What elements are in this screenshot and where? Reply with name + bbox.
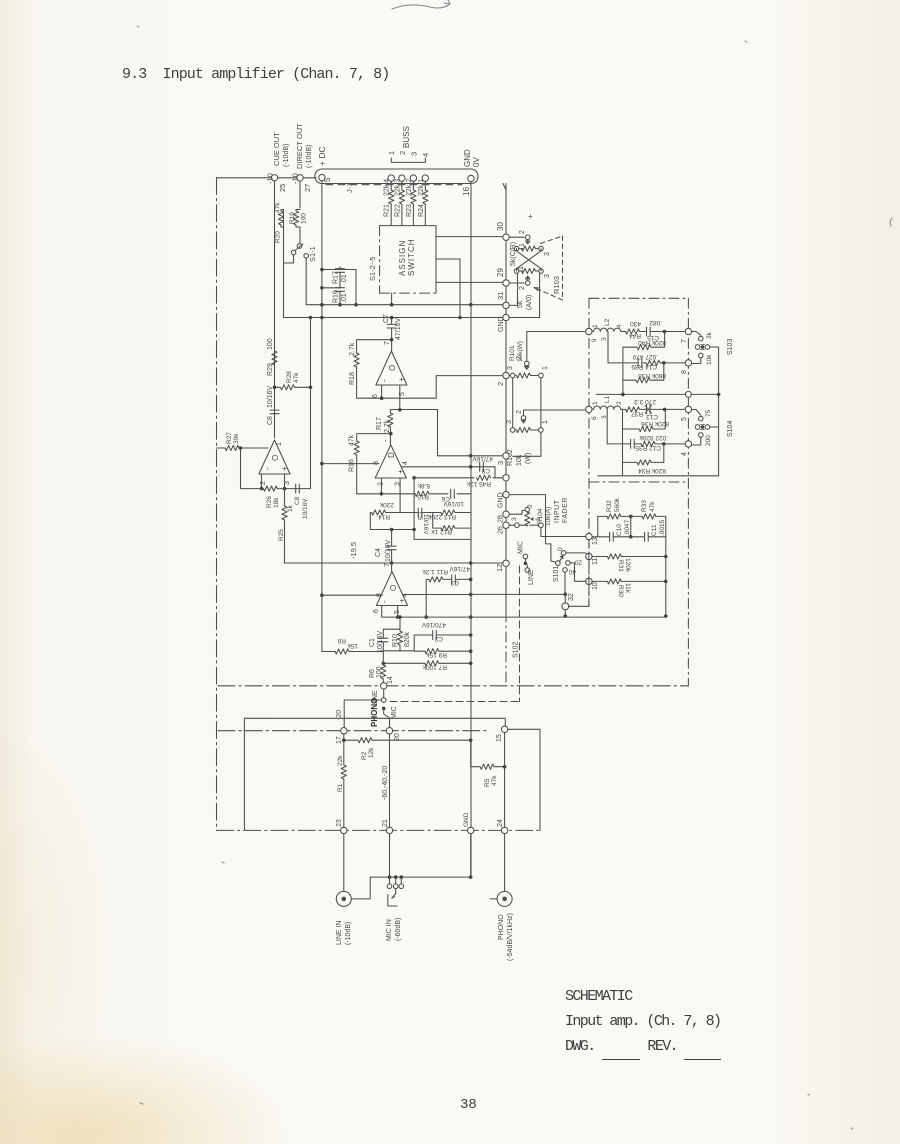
svg-text:R12 1k: R12 1k — [431, 528, 452, 535]
switch S1-1 — [291, 250, 296, 255]
resistor R29 100 — [272, 351, 277, 365]
svg-text:47/16V: 47/16V — [472, 455, 493, 462]
svg-text:860k R38: 860k R38 — [638, 372, 666, 379]
svg-text:LINE IN: LINE IN — [336, 920, 343, 945]
capacitor C14 .027 + resistor R39 470 — [608, 362, 685, 364]
svg-text:C13: C13 — [646, 413, 658, 420]
svg-text:R25: R25 — [278, 529, 285, 541]
svg-text:-: - — [380, 600, 389, 603]
svg-text:C11: C11 — [651, 524, 658, 536]
wire mic contact to pin20 — [384, 711, 390, 727]
resistor R7 100k — [383, 662, 470, 664]
resistor R45 12k — [477, 475, 491, 480]
svg-text:20: 20 — [574, 559, 582, 566]
wire x=414 vertical + bottom jog — [414, 478, 471, 540]
wire line contact to pin17 — [344, 700, 381, 727]
svg-text:3: 3 — [511, 517, 518, 521]
wire S103/S104 right vertical — [718, 347, 720, 476]
svg-text:25: 25 — [278, 184, 287, 192]
connector PHONO — [490, 834, 514, 961]
svg-text:11: 11 — [592, 558, 599, 565]
resistor R6 100 — [382, 651, 384, 683]
svg-text:C9: C9 — [481, 467, 490, 474]
svg-text:R37: R37 — [631, 410, 643, 417]
svg-text:R5: R5 — [484, 778, 491, 787]
svg-text:10/16V: 10/16V — [385, 539, 392, 562]
svg-text:INPUT: INPUT — [554, 499, 561, 523]
svg-text:MIC: MIC — [518, 541, 525, 554]
capacitor C8b 10/16V — [296, 484, 300, 493]
svg-text:R27: R27 — [226, 432, 233, 444]
pin 10 — [586, 578, 592, 584]
svg-text:R11 1.2k: R11 1.2k — [422, 568, 448, 575]
wire D pin3 stub down — [399, 478, 401, 513]
svg-text:820k: 820k — [404, 631, 411, 647]
svg-text:5k(C/R): 5k(C/R) — [510, 242, 517, 266]
capacitor C7 47/16V — [391, 318, 393, 352]
svg-text:2: 2 — [496, 382, 505, 386]
capacitor C5 10/16V — [400, 512, 418, 514]
wire pin column dashed — [505, 184, 507, 613]
svg-text:ASSIGN: ASSIGN — [398, 240, 407, 276]
svg-text:D: D — [387, 452, 396, 458]
wire pin28 to fader wiper — [509, 511, 524, 515]
svg-text:C2: C2 — [434, 635, 443, 642]
resistor R44 430 + capacitor C15 .082 — [622, 331, 685, 333]
wire pin30 to wiper — [509, 236, 524, 238]
svg-text:2: 2 — [519, 230, 526, 234]
wire cap bracket right — [355, 270, 357, 305]
svg-text:R6: R6 — [369, 669, 376, 678]
pin 8 — [685, 360, 691, 366]
pin 24 — [501, 827, 507, 833]
svg-text:40: 40 — [568, 568, 576, 575]
pin 17 — [341, 728, 347, 734]
wire C1/R10 bottom row — [383, 650, 414, 652]
svg-text:6: 6 — [591, 416, 598, 420]
resistor R36 820k — [623, 409, 666, 475]
resistor R13 220k — [433, 512, 471, 514]
title — [122, 66, 389, 83]
svg-text:12: 12 — [495, 564, 504, 572]
svg-text:3: 3 — [507, 366, 514, 370]
capacitor C8 10/16V (series) — [274, 430, 276, 438]
svg-text:470/16V: 470/16V — [421, 621, 446, 628]
svg-text:3: 3 — [601, 337, 608, 341]
svg-text:R29: R29 — [267, 363, 274, 376]
svg-text:26: 26 — [498, 526, 505, 534]
svg-text:6.8k: 6.8k — [417, 482, 430, 489]
jack board boundary — [244, 718, 505, 830]
svg-text:R103: R103 — [552, 276, 561, 294]
svg-text:6: 6 — [373, 609, 380, 613]
wire fader out to pin13 row — [541, 528, 586, 537]
svg-text:R21: R21 — [384, 204, 391, 217]
pin 31 — [503, 302, 509, 308]
svg-text:30: 30 — [496, 222, 505, 231]
svg-text:2: 2 — [398, 151, 407, 155]
resistor R32 560k + capacitor C10 .0047 — [592, 497, 632, 541]
connector MIC IN jack — [386, 834, 404, 941]
svg-text:1: 1 — [542, 420, 549, 424]
inductor L2 — [586, 318, 623, 342]
resistor R34 820k — [623, 444, 664, 463]
potentiometer R103b 5k(A/0) pan — [514, 266, 551, 310]
svg-text:LINE: LINE — [528, 569, 535, 585]
svg-text:+: + — [397, 377, 406, 382]
wire pin2 net to feedback — [436, 376, 502, 399]
svg-text:(-10dB): (-10dB) — [306, 145, 313, 168]
wire mid EQ row y=394.4 — [596, 393, 718, 395]
svg-text:.01: .01 — [341, 274, 348, 284]
svg-text:9: 9 — [591, 338, 598, 342]
svg-text:3: 3 — [544, 274, 551, 278]
wire pin29 to wiper — [509, 282, 524, 284]
fader R104 10k(A) INPUT FADER — [511, 497, 569, 527]
buss pin 4 — [422, 175, 428, 181]
svg-text:47k: 47k — [275, 202, 282, 213]
svg-text:16: 16 — [462, 187, 471, 196]
svg-text:10/16V: 10/16V — [443, 500, 464, 507]
svg-text:2.7k: 2.7k — [384, 419, 391, 433]
svg-text:GND: GND — [463, 812, 470, 827]
svg-text:47k: 47k — [293, 372, 300, 383]
pin 29 — [503, 280, 509, 286]
svg-text:270 3.3: 270 3.3 — [634, 398, 656, 405]
svg-text:11k: 11k — [624, 583, 631, 594]
pin 20 — [386, 728, 392, 734]
wire dash-dot row pin 14 level — [218, 685, 688, 687]
pin 4 — [685, 441, 691, 447]
svg-text:2.7k: 2.7k — [349, 342, 356, 356]
wire pin20 down — [389, 734, 391, 827]
svg-text:GND: GND — [498, 492, 505, 508]
svg-text:R23: R23 — [406, 204, 413, 217]
svg-text:17: 17 — [336, 736, 343, 744]
svg-text:R1: R1 — [337, 783, 344, 792]
svg-text:R28: R28 — [286, 371, 293, 383]
svg-text:C5: C5 — [416, 512, 423, 521]
resistor R5 47k — [471, 733, 505, 827]
potentiometer R103a 5k(C/R) pan — [510, 230, 551, 266]
svg-text:-: - — [381, 439, 390, 442]
pin 5 (+DC) — [319, 174, 325, 180]
svg-text:S1-1: S1-1 — [308, 246, 317, 262]
svg-text:BUSS: BUSS — [402, 126, 411, 148]
svg-text:R104: R104 — [537, 508, 544, 524]
svg-text:1: 1 — [387, 151, 396, 155]
svg-text:+: + — [396, 469, 405, 474]
svg-text:7: 7 — [681, 339, 688, 343]
svg-text:FADER: FADER — [562, 497, 569, 523]
svg-text:27: 27 — [303, 184, 312, 192]
svg-text:C3: C3 — [450, 579, 459, 586]
svg-text:2: 2 — [519, 286, 526, 290]
wire connector to pin column — [503, 184, 506, 191]
svg-text:100: 100 — [267, 338, 274, 350]
resistor R33 47k + capacitor C11 .0015 — [631, 500, 666, 542]
svg-text:L2: L2 — [604, 318, 611, 326]
svg-text:47/16V: 47/16V — [449, 565, 470, 572]
svg-text:.027 470: .027 470 — [632, 353, 658, 360]
connector LINE IN — [336, 834, 370, 945]
op-amp U1E — [373, 563, 409, 614]
svg-text:75: 75 — [705, 409, 712, 417]
buss pin 3 — [410, 175, 416, 181]
wire pin column dashed lower — [588, 540, 590, 606]
svg-text:21: 21 — [382, 819, 389, 827]
svg-text:47/16V: 47/16V — [395, 317, 402, 340]
wire EQ bottom row — [598, 475, 719, 477]
svg-text:(A/0): (A/0) — [526, 295, 533, 310]
wire op-amp C pin5 output jog — [390, 385, 399, 410]
svg-text:22k 2: 22k 2 — [406, 179, 413, 196]
svg-text:S103: S103 — [727, 339, 734, 355]
pin GND bottom — [468, 827, 474, 833]
svg-text:100: 100 — [376, 666, 383, 678]
wire right vertical x=665.8 — [665, 537, 667, 616]
svg-text:5k: 5k — [517, 300, 524, 308]
wire assign box right stubs — [436, 237, 503, 283]
svg-text:(-60dB): (-60dB) — [395, 918, 402, 941]
wire pin1 row — [414, 477, 503, 479]
svg-text:2: 2 — [616, 401, 623, 405]
svg-text:(W): (W) — [525, 453, 532, 464]
svg-text:R15: R15 — [417, 493, 429, 500]
svg-text:R24: R24 — [418, 204, 425, 217]
svg-text:R20: R20 — [275, 231, 282, 243]
wire dashed inside connector — [326, 184, 462, 186]
capacitor C2 470/16V — [414, 635, 471, 651]
svg-text:R101: R101 — [509, 345, 516, 361]
resistor R23 22k — [412, 182, 414, 226]
wire bottom boundary dash-dot row 23/21/GND/24 — [217, 829, 541, 831]
svg-text:C1: C1 — [369, 638, 376, 647]
switch S104 — [692, 409, 734, 446]
pin 30 — [503, 234, 509, 240]
svg-text:(-10dB): (-10dB) — [345, 922, 352, 945]
svg-text:.0015: .0015 — [659, 519, 666, 536]
svg-text:GND: GND — [463, 149, 472, 167]
svg-text:R10: R10 — [392, 634, 399, 647]
wire op-amp E pin8 power — [322, 594, 382, 596]
svg-text:3k: 3k — [706, 331, 713, 339]
wire top-left entry — [217, 177, 317, 179]
svg-text:13: 13 — [592, 537, 599, 545]
wire dash-dot row pins 17/20/15 — [218, 730, 490, 732]
page number — [460, 1097, 477, 1113]
svg-text:1: 1 — [519, 243, 526, 247]
wire ground return row — [370, 834, 471, 877]
wire pin27-column down to y316 — [283, 263, 285, 318]
svg-text:.082: .082 — [649, 319, 662, 326]
capacitor C12 .022 + resistor R35 820k — [607, 443, 685, 445]
capacitor C17 .01 — [322, 267, 356, 270]
svg-text:22k: 22k — [337, 755, 344, 766]
resistor R12 1k — [433, 513, 471, 529]
svg-text:R16: R16 — [333, 290, 340, 303]
wire L1 centre tap — [606, 409, 608, 444]
svg-text:S101: S101 — [553, 566, 560, 582]
svg-text:.0047: .0047 — [624, 519, 631, 536]
switch S101b line/mic of pin14 — [372, 689, 398, 719]
svg-text:R26: R26 — [266, 496, 273, 508]
resistor R22 22k — [401, 182, 403, 226]
svg-text:3: 3 — [284, 481, 291, 485]
pin 11 — [586, 553, 592, 559]
svg-text:R22: R22 — [394, 204, 401, 217]
svg-text:220k: 220k — [379, 501, 394, 508]
wire op-amp D pin8 power — [322, 463, 379, 465]
svg-text:PHONO: PHONO — [498, 914, 505, 940]
svg-text:J-1: J-1 — [345, 183, 354, 193]
wire y=493.8 row — [357, 493, 471, 495]
switch S1-2~5 ASSIGN SWITCH box — [368, 226, 436, 294]
capacitor C4 10/16V — [391, 530, 393, 572]
svg-text:0V: 0V — [472, 157, 481, 167]
svg-text:S1-2~5: S1-2~5 — [368, 257, 377, 281]
svg-text:DIRECT OUT: DIRECT OUT — [295, 123, 304, 169]
svg-text:R31: R31 — [617, 560, 624, 572]
wire pin27 down to R19 — [299, 181, 301, 208]
resistor R10 820k — [399, 617, 401, 651]
wire +DC vertical — [321, 181, 323, 595]
pin 5 — [685, 406, 691, 412]
svg-text:10/16V: 10/16V — [377, 630, 384, 653]
svg-text:S102: S102 — [513, 642, 520, 658]
svg-text:-: - — [263, 467, 272, 470]
wire E pin4 row extension to S101 — [471, 593, 566, 595]
wire y=617.1 row — [382, 616, 666, 618]
wire pin31 to pot R103b left terminal — [509, 273, 517, 305]
wire L2 centre tap — [607, 332, 609, 363]
svg-text:23: 23 — [336, 819, 343, 827]
svg-text:39k: 39k — [233, 433, 240, 444]
svg-text:+: + — [398, 598, 407, 603]
svg-text:-60,-40,-20: -60,-40,-20 — [382, 766, 389, 800]
svg-text:.01: .01 — [341, 293, 348, 303]
svg-text:R19: R19 — [289, 212, 296, 224]
label BUSS bracket — [391, 158, 425, 162]
svg-text:560k: 560k — [614, 497, 621, 512]
wire E pin5 output stub — [397, 606, 399, 618]
svg-text:200: 200 — [705, 435, 712, 446]
pin 1 — [503, 475, 509, 481]
resistor R20 47k — [280, 210, 282, 228]
svg-text:1: 1 — [276, 442, 283, 446]
svg-text:10k(A): 10k(A) — [545, 507, 552, 526]
svg-text:R30: R30 — [617, 585, 624, 597]
svg-text:4: 4 — [402, 461, 409, 465]
wire long y=563 row — [284, 562, 503, 564]
svg-text:R9 15k: R9 15k — [426, 651, 447, 658]
svg-text:R17: R17 — [376, 417, 383, 430]
resistor R1 22k — [343, 740, 345, 765]
svg-text:R13 220k: R13 220k — [427, 513, 456, 520]
svg-text:29: 29 — [496, 268, 505, 277]
pin 21 — [386, 827, 392, 833]
svg-text:10k: 10k — [516, 454, 523, 466]
S102 dashed boundary — [519, 566, 521, 702]
svg-text:C12 R35: C12 R35 — [635, 444, 661, 451]
svg-text:22k 3: 22k 3 — [394, 179, 401, 196]
wire op-amp D pin4 / C9 row — [402, 467, 495, 478]
pin 15 — [501, 726, 507, 732]
resistor R9 15k — [414, 650, 471, 652]
svg-text:-19.5: -19.5 — [349, 542, 358, 559]
resistor R2 12k — [344, 734, 471, 740]
svg-text:5: 5 — [323, 177, 332, 182]
resistor R18 2.7k feedback — [357, 340, 392, 398]
svg-text:100: 100 — [301, 213, 308, 224]
op-amp U1C — [372, 341, 407, 398]
svg-text:820k R40: 820k R40 — [638, 339, 666, 346]
wire GND bus from pin16 — [470, 182, 472, 877]
svg-text:R45 12k: R45 12k — [466, 480, 491, 487]
wire assign box bottom stub — [391, 293, 393, 305]
svg-text:R16: R16 — [349, 459, 356, 472]
svg-text:-: - — [380, 379, 389, 382]
svg-text:R17: R17 — [333, 271, 340, 284]
pin 13 — [586, 533, 592, 539]
svg-text:10k(W): 10k(W) — [517, 341, 524, 362]
wire S1-1 connections — [284, 243, 307, 305]
resistor R37 270 + capacitor C13 3.3 — [622, 408, 685, 410]
wire pin25 down — [274, 181, 276, 430]
potentiometer R102 10k(W) — [506, 410, 549, 466]
inductor L1 — [586, 395, 623, 420]
resistor R11 1.2k + capacitor C3 47/16V feedback — [422, 565, 473, 595]
svg-text:.022 820k: .022 820k — [639, 434, 668, 441]
svg-text:120k: 120k — [624, 558, 631, 573]
svg-text:10k: 10k — [706, 354, 713, 365]
switch S101 mic/line contacts — [518, 541, 536, 585]
resistor R38 860k — [623, 347, 664, 394]
svg-text:S104: S104 — [727, 421, 734, 437]
svg-text:10: 10 — [592, 582, 599, 590]
pin 32 — [562, 603, 569, 610]
resistor R8 15k — [322, 595, 383, 651]
resistor R24 22k — [424, 182, 426, 226]
pin 2 (R101 wiper feed) — [503, 372, 509, 378]
svg-text:O: O — [388, 365, 397, 371]
wire R102 wiper up-left to L1 row — [524, 410, 585, 416]
svg-text:-10: -10 — [266, 173, 275, 184]
svg-text:PHONO: PHONO — [370, 698, 379, 727]
svg-text:(-54dB/V/1kHz): (-54dB/V/1kHz) — [507, 913, 514, 961]
wire x=426.2 vertical — [425, 595, 427, 618]
wire B pin3 stub — [284, 474, 286, 489]
svg-text:C4: C4 — [375, 548, 382, 557]
svg-text:R14: R14 — [378, 513, 390, 520]
svg-text:18k: 18k — [273, 497, 280, 508]
wire stub2 down to y316 row — [459, 259, 461, 318]
wire left boundary vertical — [216, 178, 218, 831]
connector J-1 outline — [315, 169, 478, 184]
svg-text:R33: R33 — [641, 500, 648, 512]
svg-text:430: 430 — [630, 320, 641, 327]
svg-text:R8: R8 — [337, 637, 346, 644]
svg-text:22k 1: 22k 1 — [418, 179, 425, 196]
svg-text:O: O — [389, 585, 398, 591]
svg-text:1k: 1k — [287, 504, 294, 512]
resistor R26 18k — [257, 488, 264, 490]
svg-text:C8: C8 — [294, 496, 301, 505]
op-amp U1D — [373, 439, 409, 486]
svg-text:C7: C7 — [383, 314, 390, 323]
svg-text:10/16V: 10/16V — [267, 385, 274, 408]
buss pin 2 — [399, 175, 405, 181]
